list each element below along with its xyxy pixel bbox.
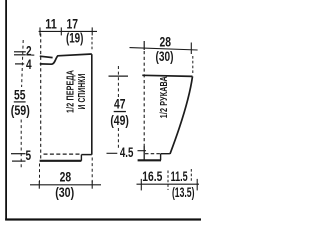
left dimension line upper segment — [22, 40, 24, 87]
body hem step riser — [80, 155, 82, 161]
sleeve slant top extension (dashed) — [190, 169, 192, 182]
sleeve fold line bottom segment (solid) — [143, 146, 145, 161]
sleeve fold line (dashed) — [143, 51, 145, 146]
top dimension middle tick — [60, 27, 62, 35]
body bottom right tick — [91, 181, 93, 189]
svg-text:11.5: 11.5 — [171, 169, 188, 184]
sleeve cuff fold line (dashed) — [145, 153, 160, 155]
left tick back neck level — [14, 54, 26, 56]
left tick front neck level — [15, 63, 24, 65]
sleeve length top tick — [109, 75, 129, 77]
svg-text:55: 55 — [14, 88, 26, 103]
body hem bottom edge — [40, 160, 82, 162]
svg-text:11: 11 — [45, 16, 57, 31]
svg-text:(13.5): (13.5) — [172, 185, 195, 200]
svg-text:(30): (30) — [156, 49, 174, 64]
top right extension to shoulder (dashed) — [91, 37, 93, 50]
svg-text:16.5: 16.5 — [142, 169, 162, 184]
sleeve bottom left tick — [140, 179, 142, 191]
left page border — [5, 0, 7, 220]
left tick hem bottom level — [12, 160, 26, 162]
underline of 47 — [114, 111, 126, 112]
top dimension right tick — [91, 27, 93, 35]
left tick shoulder level — [14, 51, 26, 53]
sleeve top dimension right tick — [190, 43, 192, 55]
body right edge extension (dashed) — [91, 158, 93, 183]
svg-text:И СПИНКИ: И СПИНКИ — [77, 74, 88, 110]
sleeve bottom middle tick (dashed extension) — [167, 171, 169, 191]
sleeve bottom dimension line (16.5 / 11.5) — [137, 183, 200, 185]
svg-text:(59): (59) — [11, 103, 30, 118]
sleeve fold line top tick (solid) — [143, 41, 145, 50]
sleeve cuff step upper edge — [161, 153, 170, 155]
svg-text:28: 28 — [60, 169, 72, 184]
svg-text:47: 47 — [114, 97, 126, 112]
svg-text:17: 17 — [67, 16, 79, 31]
top dimension line (11 / 17) — [39, 30, 97, 32]
body hem step upper edge — [81, 154, 91, 156]
sleeve bottom right tick — [196, 179, 198, 191]
body front neckline, neck curve and shoulder top edge — [40, 54, 92, 64]
body piece fold extension to bottom dimension — [39, 164, 41, 183]
left tick hem fold level — [11, 153, 26, 155]
small dash right of label 2 — [31, 54, 34, 56]
sleeve cuff step riser — [160, 154, 162, 161]
sleeve length bottom tick — [107, 152, 118, 154]
svg-text:5: 5 — [26, 148, 32, 163]
svg-text:1/2 ПЕРЕДА: 1/2 ПЕРЕДА — [65, 70, 76, 113]
svg-text:(30): (30) — [55, 185, 74, 200]
svg-text:4: 4 — [26, 57, 32, 72]
body back neckline — [40, 56, 53, 57]
sleeve top dimension line (28 / 30) — [130, 48, 198, 50]
left dimension line lower segment — [20, 120, 22, 169]
sleeve length dimension line upper segment (47/49) — [117, 66, 119, 97]
svg-text:4.5: 4.5 — [120, 145, 134, 160]
sleeve top right extension (dashed) — [192, 56, 194, 73]
top dimension tick at fold — [39, 27, 41, 35]
svg-text:(19): (19) — [66, 31, 84, 46]
body hem fold line (dashed) — [44, 153, 81, 155]
svg-text:1/2 РУКАВА: 1/2 РУКАВА — [159, 76, 170, 118]
body piece fold line (dashed, center front/back) — [40, 34, 42, 160]
underline of 55 — [14, 101, 26, 102]
page background — [0, 0, 201, 224]
body bottom left tick — [38, 181, 40, 189]
svg-text:(49): (49) — [110, 113, 129, 128]
body bottom dimension line (28 / 30) — [30, 184, 101, 186]
body right side edge — [91, 54, 93, 155]
sleeve cuff bottom edge — [138, 159, 161, 161]
sleeve top edge — [142, 75, 192, 76]
sleeve cuff upper tick (4.5) — [138, 150, 147, 152]
bottom page border — [5, 218, 201, 220]
svg-text:28: 28 — [160, 34, 172, 49]
sleeve length dimension line lower segment — [117, 128, 119, 150]
sleeve underarm slanted edge — [170, 76, 193, 153]
